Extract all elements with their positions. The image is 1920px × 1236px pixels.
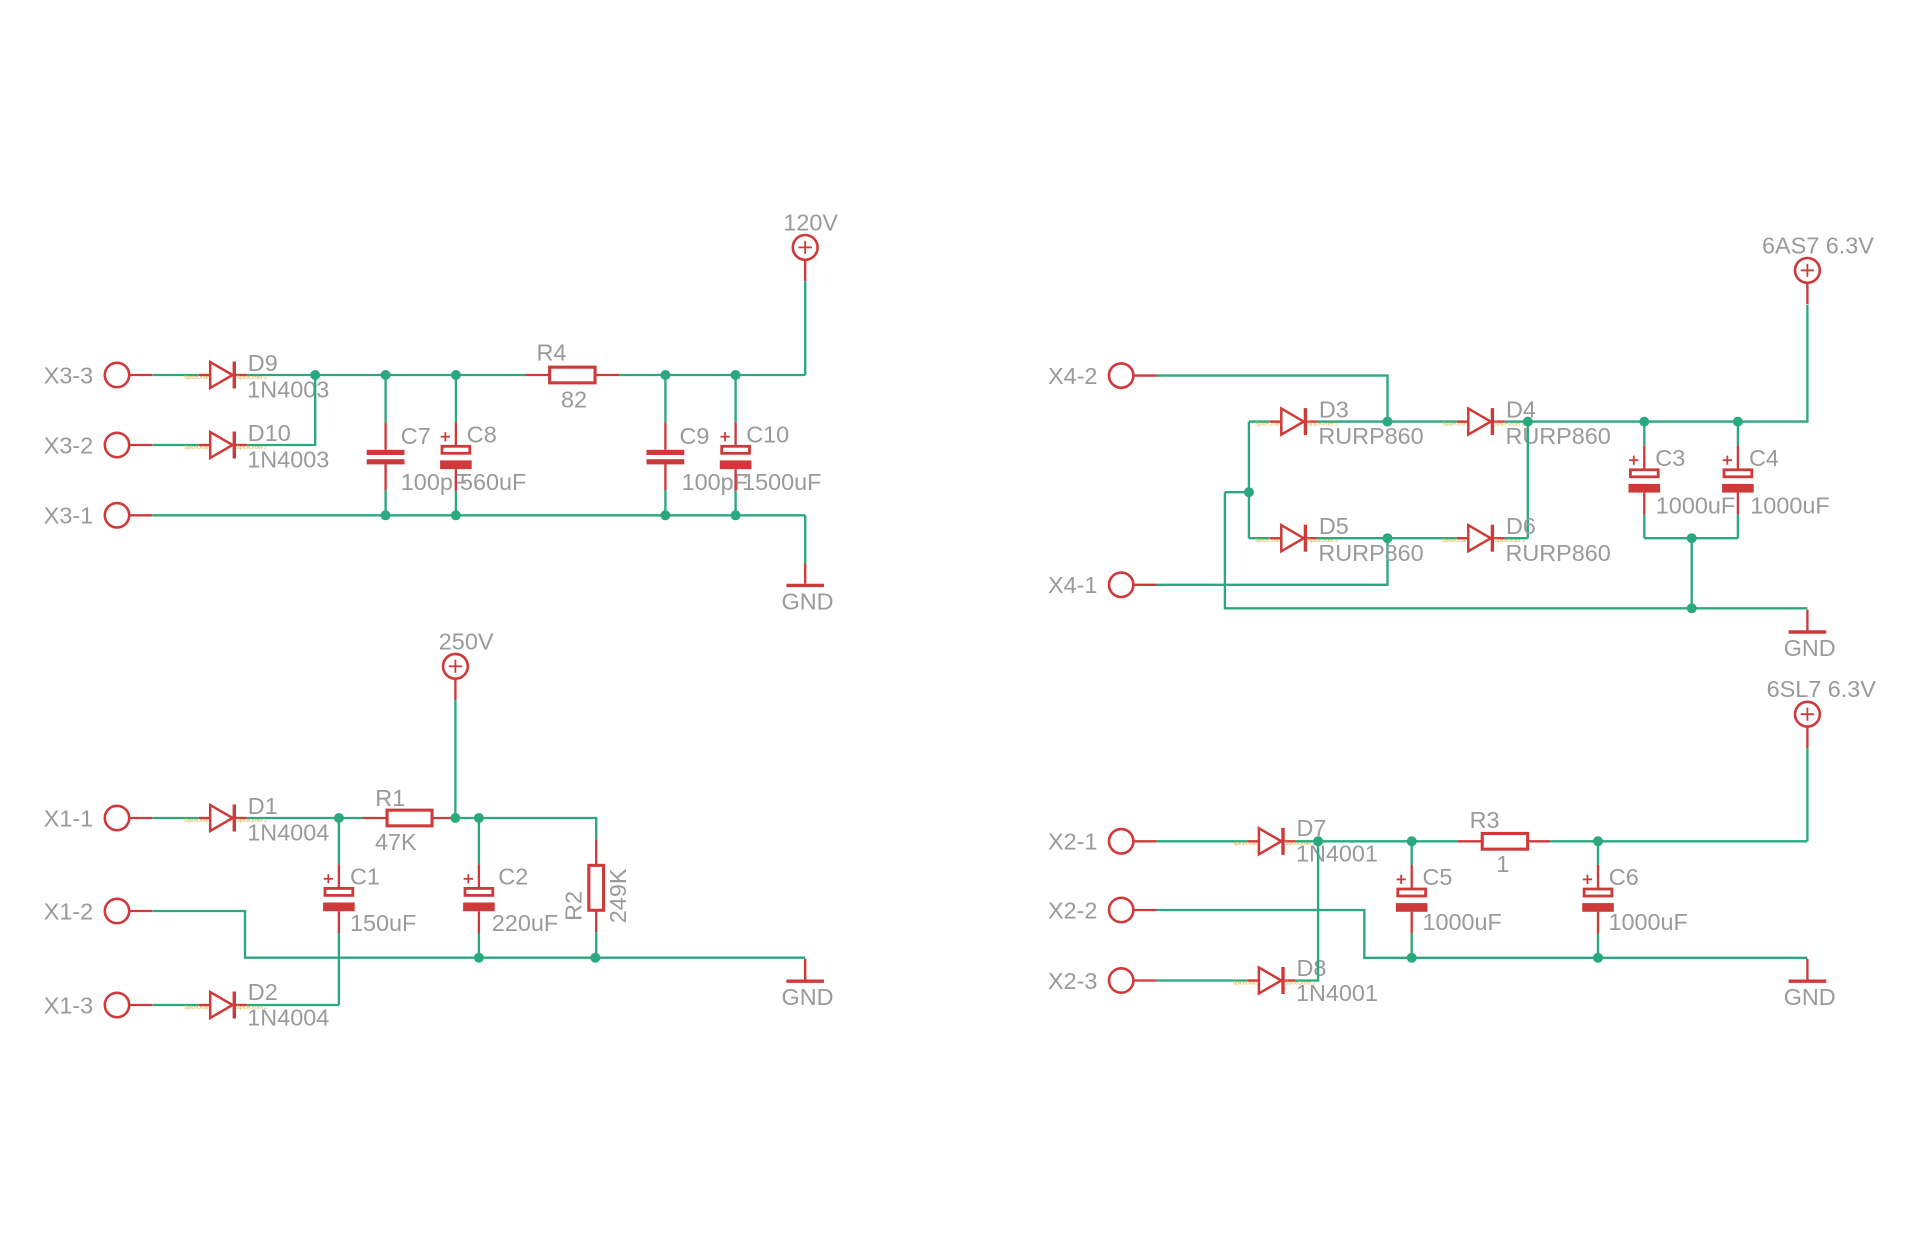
svg-text:1000uF: 1000uF: [1750, 492, 1829, 518]
svg-text:C6: C6: [1609, 864, 1639, 890]
svg-text:X1-3: X1-3: [44, 992, 93, 1018]
diode D10 1N4003: [184, 420, 329, 473]
diode D3 RURP860: [1255, 397, 1424, 450]
wire C5 to ground rail: [1411, 934, 1413, 958]
svg-text:D10: D10: [248, 420, 291, 446]
svg-text:X3-2: X3-2: [44, 432, 93, 458]
connector pad X3-2: [44, 432, 153, 458]
junction D7/D8 node: [1313, 836, 1323, 846]
wire rail to C4: [1737, 422, 1739, 446]
wire bridge left vertical: [1248, 422, 1250, 539]
junction C10 top: [731, 370, 741, 380]
wire bridge negative to GND rail: [1225, 492, 1808, 608]
svg-text:1N4003: 1N4003: [247, 447, 329, 473]
svg-text:X3-1: X3-1: [44, 503, 93, 529]
wire D7 cathode to R3: [1295, 840, 1458, 842]
junction C5 bottom: [1407, 953, 1417, 963]
connector pad X2-2: [1048, 897, 1157, 923]
polarized capacitor C10 1500uF: [720, 421, 822, 495]
svg-text:X2-2: X2-2: [1048, 897, 1097, 923]
junction D4/D6 output node: [1523, 417, 1533, 427]
svg-text:X2-3: X2-3: [1048, 968, 1097, 994]
wire bridge left to D3: [1249, 420, 1270, 422]
svg-text:220uF: 220uF: [492, 910, 558, 936]
wire R2 to ground rail: [595, 932, 597, 958]
wire X2-3 to D8: [1157, 979, 1248, 981]
wire bridge left to D5: [1249, 537, 1270, 539]
wire ground rail to GND: [804, 515, 806, 563]
wire X2-1 to D7: [1157, 840, 1248, 842]
svg-text:RURP860: RURP860: [1318, 540, 1423, 566]
junction C4 top: [1733, 417, 1743, 427]
wire D1 cathode to R1: [247, 817, 363, 819]
svg-text:D9: D9: [248, 350, 278, 376]
wire 120V supply drop: [804, 281, 806, 375]
svg-text:C7: C7: [401, 423, 431, 449]
connector pad X1-1: [44, 805, 153, 831]
polarized capacitor C2 220uF: [463, 863, 558, 936]
svg-text:1: 1: [1496, 851, 1509, 877]
wire rail to C6: [1597, 841, 1599, 865]
junction 250V supply node: [450, 813, 460, 823]
polarized capacitor C8 560uF: [440, 421, 526, 495]
svg-text:GND: GND: [1784, 984, 1836, 1010]
svg-text:R3: R3: [1470, 807, 1500, 833]
capacitor C7 100pF: [367, 422, 467, 495]
junction C10 bottom: [731, 510, 741, 520]
junction C7 top: [381, 370, 391, 380]
wire C9 to ground rail: [664, 490, 666, 515]
wire C4 bottom: [1737, 514, 1739, 538]
svg-text:R1: R1: [375, 785, 405, 811]
diode D1 1N4004: [184, 793, 329, 846]
connector pad X3-1: [44, 503, 153, 529]
diode D2 1N4004: [184, 979, 329, 1031]
svg-text:6SL7 6.3V: 6SL7 6.3V: [1767, 676, 1877, 702]
junction C6 bottom: [1593, 953, 1603, 963]
svg-text:250V: 250V: [439, 628, 494, 654]
wire R4 to 120V rail: [619, 374, 805, 376]
wire X2-2 ground rail: [1157, 910, 1808, 958]
wire C8 to ground rail: [455, 491, 457, 515]
wire D3 to D4: [1318, 420, 1457, 422]
connector pad X1-3: [44, 992, 153, 1018]
wire rail to C5: [1411, 841, 1413, 865]
wire X1-3 to D2: [153, 1004, 199, 1006]
diode D5 RURP860: [1255, 513, 1424, 566]
junction D3/D4 AC node: [1383, 417, 1393, 427]
svg-text:X1-2: X1-2: [44, 898, 93, 924]
wire D10 cathode up to rail: [247, 375, 316, 445]
svg-text:C3: C3: [1655, 445, 1685, 471]
svg-text:150uF: 150uF: [350, 910, 416, 936]
wire X3-2 to D10: [153, 444, 199, 446]
wire D4 cathode to 6AS7 rail: [1505, 305, 1808, 422]
polarized capacitor C5 1000uF: [1396, 864, 1502, 935]
supply 250V: [439, 628, 494, 700]
svg-text:1000uF: 1000uF: [1656, 492, 1735, 518]
wire X4-2 to bridge top: [1157, 376, 1388, 422]
wire output node down to D6: [1527, 422, 1529, 539]
wire C1 bottom to D2 node: [338, 933, 340, 1005]
wire cap bottom to GND rail: [1691, 538, 1693, 608]
supply 6AS7 6.3V: [1762, 232, 1874, 304]
wire D2 cathode to C1 node: [247, 1004, 339, 1006]
svg-text:560uF: 560uF: [460, 469, 526, 495]
wire D6 cathode to output node: [1505, 537, 1528, 539]
wire C6 to ground rail: [1597, 934, 1599, 958]
wire C7 to ground rail: [384, 490, 386, 515]
connector pad X4-2: [1048, 363, 1157, 389]
svg-text:1N4001: 1N4001: [1296, 980, 1378, 1006]
svg-text:RURP860: RURP860: [1318, 423, 1423, 449]
supply 120V: [783, 209, 838, 281]
junction D9/D10 node: [310, 370, 320, 380]
diode D8 1N4001: [1233, 955, 1378, 1006]
polarized capacitor C4 1000uF: [1722, 445, 1830, 519]
junction R2 bottom: [590, 953, 600, 963]
svg-text:D6: D6: [1506, 513, 1536, 539]
wire R3 to 6SL7 rail: [1550, 840, 1807, 842]
svg-text:1N4004: 1N4004: [247, 1004, 329, 1030]
svg-text:X1-1: X1-1: [44, 805, 93, 831]
diode D9 1N4003: [184, 350, 329, 403]
connector pad X2-3: [1048, 968, 1157, 994]
svg-text:C9: C9: [680, 423, 710, 449]
svg-text:249K: 249K: [605, 868, 631, 923]
junction C3 top: [1639, 417, 1649, 427]
svg-text:1N4003: 1N4003: [247, 377, 329, 403]
svg-text:C10: C10: [746, 421, 789, 447]
svg-text:C2: C2: [498, 863, 528, 889]
polarized capacitor C1 150uF: [323, 863, 416, 936]
svg-text:X4-2: X4-2: [1048, 363, 1097, 389]
wire X4-1 to bridge bottom: [1157, 538, 1388, 585]
svg-text:D2: D2: [248, 979, 278, 1005]
svg-text:R4: R4: [537, 339, 567, 365]
wire C10 to ground rail: [734, 491, 736, 515]
svg-text:RURP860: RURP860: [1506, 423, 1611, 449]
resistor R1 47K: [362, 785, 452, 855]
wire rail to C8: [455, 375, 457, 422]
ground: [782, 563, 834, 614]
diode D7 1N4001: [1233, 815, 1378, 866]
resistor R2 249K (vertical): [561, 840, 631, 932]
wire node to C1: [338, 818, 340, 864]
ground: [1784, 610, 1836, 661]
svg-text:X2-1: X2-1: [1048, 829, 1097, 855]
junction C8 top: [451, 370, 461, 380]
junction C2 bottom: [474, 953, 484, 963]
junction C9 top: [660, 370, 670, 380]
svg-text:C8: C8: [467, 421, 497, 447]
wire C3-C4 bottom link: [1644, 537, 1738, 539]
polarized capacitor C6 1000uF: [1582, 864, 1688, 935]
svg-text:C5: C5: [1423, 864, 1453, 890]
svg-text:D5: D5: [1319, 513, 1349, 539]
junction C7 bottom: [381, 510, 391, 520]
svg-text:1N4001: 1N4001: [1296, 841, 1378, 867]
svg-text:1N4004: 1N4004: [247, 820, 329, 846]
svg-text:100pF: 100pF: [682, 469, 748, 495]
svg-text:RURP860: RURP860: [1506, 540, 1611, 566]
svg-text:R2: R2: [561, 891, 587, 921]
wire C2 to ground rail: [478, 933, 480, 958]
ground: [1784, 959, 1836, 1010]
junction GND rail: [1687, 603, 1697, 613]
junction C3/C4 bottom node: [1687, 533, 1697, 543]
svg-text:100pF: 100pF: [401, 469, 467, 495]
svg-text:C1: C1: [350, 863, 380, 889]
svg-text:1000uF: 1000uF: [1609, 909, 1688, 935]
wire X1-2 ground rail: [153, 911, 806, 958]
svg-text:D7: D7: [1297, 815, 1327, 841]
diode D4 RURP860: [1442, 397, 1611, 450]
wire D8 cathode up to D7 node: [1295, 841, 1318, 980]
wire X1-1 to D1: [153, 817, 199, 819]
junction C6 top: [1593, 836, 1603, 846]
wire rail to C10: [734, 375, 736, 422]
wire rail to C7: [384, 375, 386, 422]
wire R1 to R2 branch: [452, 818, 596, 840]
wire node to C2: [478, 818, 480, 864]
wire bridge left stub: [1225, 491, 1249, 493]
svg-text:1500uF: 1500uF: [742, 469, 821, 495]
wire 6SL7 supply drop: [1806, 748, 1808, 841]
ground: [782, 959, 834, 1010]
svg-text:120V: 120V: [783, 209, 838, 235]
resistor R4 82: [525, 339, 619, 412]
svg-text:GND: GND: [782, 588, 834, 614]
junction C2 top: [474, 813, 484, 823]
svg-text:82: 82: [561, 387, 587, 413]
wire rail to C3: [1643, 422, 1645, 446]
svg-text:D3: D3: [1319, 397, 1349, 423]
connector pad X3-3: [44, 362, 153, 388]
svg-text:1000uF: 1000uF: [1423, 909, 1502, 935]
wire X3-1 ground rail: [153, 514, 806, 516]
wire X3-3 to D9: [153, 374, 199, 376]
junction D1/C1 node: [334, 813, 344, 823]
resistor R3 1: [1458, 807, 1550, 877]
connector pad X1-2: [44, 898, 153, 924]
junction C5 top: [1407, 836, 1417, 846]
svg-text:D1: D1: [248, 793, 278, 819]
wire D5 to D6: [1318, 537, 1457, 539]
svg-text:C4: C4: [1749, 445, 1779, 471]
junction C9 bottom: [660, 510, 670, 520]
svg-text:X4-1: X4-1: [1048, 572, 1097, 598]
svg-text:X3-3: X3-3: [44, 362, 93, 388]
polarized capacitor C3 1000uF: [1629, 445, 1736, 519]
wire C3 bottom: [1643, 514, 1645, 538]
wire rail to C9: [664, 375, 666, 422]
junction D5/D6 AC node: [1383, 533, 1393, 543]
connector pad X4-1: [1048, 572, 1157, 598]
svg-text:GND: GND: [1784, 635, 1836, 661]
junction C8 bottom: [451, 510, 461, 520]
svg-text:6AS7 6.3V: 6AS7 6.3V: [1762, 232, 1874, 258]
capacitor C9 100pF: [647, 422, 748, 495]
wire D9 cathode rail: [247, 374, 525, 376]
wire 250V supply drop: [454, 700, 456, 818]
svg-text:GND: GND: [782, 984, 834, 1010]
junction bridge left node: [1244, 487, 1254, 497]
connector pad X2-1: [1048, 829, 1157, 855]
svg-text:D8: D8: [1297, 955, 1327, 981]
diode D6 RURP860: [1442, 513, 1611, 566]
svg-text:47K: 47K: [375, 829, 417, 855]
supply 6SL7 6.3V: [1767, 676, 1877, 748]
